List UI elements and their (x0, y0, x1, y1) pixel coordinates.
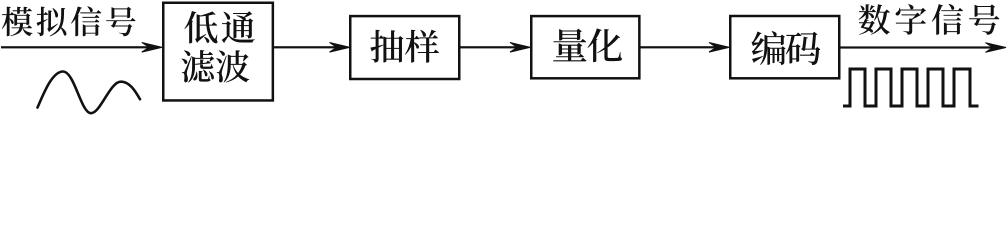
label: 模拟信号 (analog signal) (2, 6, 136, 36)
block: 编码 encoder box (730, 16, 839, 78)
waveform: analog sine wave (38, 72, 141, 114)
wire: input arrow into low-pass filter (1, 43, 162, 53)
label: 数字信号 (digital signal) (859, 4, 1000, 35)
block: 量化 quantizer box (531, 16, 639, 78)
wire: arrow sampler to quantizer (460, 43, 531, 53)
wire: output arrow from encoder (840, 43, 1006, 53)
block: 抽样 sampling box (350, 16, 459, 79)
wire: arrow filter to sampler (274, 43, 350, 53)
wire: arrow quantizer to encoder (640, 43, 730, 53)
block: 低通滤波 low-pass filter box (163, 3, 273, 101)
waveform: digital pulse train (843, 69, 979, 106)
